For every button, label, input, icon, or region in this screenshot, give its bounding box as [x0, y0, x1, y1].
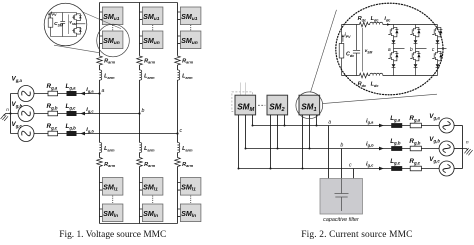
inductor L_g (row b) — [67, 111, 77, 116]
submodule SM_un upper arm phase b — [142, 31, 163, 49]
submodule SM_u1 upper arm phase b — [142, 7, 163, 25]
resistor R_arm lower, phase b — [137, 157, 143, 167]
wire: inset1 bottom rail — [51, 36, 77, 38]
wire: right neutral bus — [462, 126, 464, 169]
dotted continuation between SM_u1 and SM_un, phase a — [112, 25, 114, 30]
svg-text:a: a — [388, 47, 391, 53]
wire stubs into SM_l1 — [178, 183, 181, 191]
wire: upper arm vertical, phase b — [139, 3, 141, 56]
inductor L_g (row a) — [67, 91, 77, 96]
junction (SM_1 pin on bus c) — [302, 168, 304, 170]
current arrow i_g,c (Fig.2) — [379, 167, 384, 171]
wire: midpoint stub b (inset2) — [416, 48, 427, 50]
switch cell upper leg a (inset2) — [393, 25, 395, 28]
submodule SM_ln lower arm phase a — [102, 204, 123, 222]
inductor L_g,c (Fig.2) — [391, 166, 402, 171]
inductor L_g,a (Fig.2) — [391, 123, 402, 128]
taps to capacitive filter — [329, 126, 354, 179]
submodule SM_un upper arm phase a — [102, 31, 123, 49]
resistor R_g,b — [48, 111, 58, 116]
highlight circle around SM_1 — [296, 92, 323, 119]
svg-text:capacitive filter: capacitive filter — [323, 217, 359, 223]
submodule SM_u1 upper arm phase c — [180, 7, 201, 25]
wire: lower arm vertical, phase b — [139, 114, 141, 224]
submodule SM_l1 lower arm phase a — [102, 178, 123, 196]
AC source V_b (Fig.1) — [18, 106, 34, 122]
junction (SM_2 pin on bus a) — [284, 125, 286, 127]
svg-text:a: a — [328, 120, 331, 126]
phantom module (dashed) behind SM_M — [232, 92, 253, 112]
PV source box (inset1) — [50, 13, 52, 37]
svg-text:b: b — [340, 143, 343, 149]
current arrow i_PV (inset2) — [342, 36, 344, 42]
resistor R_dc bottom — [358, 73, 368, 78]
callout line lower (Fig.2 inset) — [323, 94, 437, 103]
wire stubs into SM_u1 — [178, 12, 181, 20]
inductor L_dc top — [370, 22, 383, 24]
svg-text:b: b — [142, 108, 145, 114]
wire stubs into SM_un — [140, 36, 143, 44]
wire to phase node b — [139, 80, 141, 114]
dotted continuation between SM_l1 and SM_ln, phase b — [152, 196, 154, 204]
junction (SM_1 pin on bus b) — [309, 148, 311, 150]
dotted continuation between SM_M and SM_2 — [258, 104, 265, 106]
junction (SM_M pin on bus a) — [252, 125, 254, 127]
wire — [99, 65, 101, 70]
wire to phase node a — [99, 80, 101, 94]
wire stubs into SM_u1 — [140, 12, 143, 20]
wire: phase line a — [34, 93, 100, 95]
wire to neutral bus (row b) — [454, 148, 462, 150]
wire stubs into SM_ln — [140, 209, 143, 217]
current arrow i_g (row b) — [80, 112, 85, 116]
current arrow i_g,b (Fig.2) — [379, 147, 384, 151]
wire: inset2 top rail — [342, 24, 438, 26]
node c — [176, 132, 178, 134]
wire: source neutral bus — [11, 94, 19, 134]
ground n (Fig.1) — [10, 113, 12, 115]
current arrow i_g (row c) — [80, 132, 85, 136]
capacitive filter box — [320, 179, 363, 215]
wire stubs into SM_un — [100, 36, 103, 44]
inductor L_arm upper, phase c — [178, 70, 180, 80]
diode (anti-parallel, upper, inset1) — [77, 14, 81, 21]
resistor R_g,a (Fig.2) — [410, 123, 421, 128]
wire to neutral bus (row a) — [454, 125, 462, 127]
inductor L_g,b (Fig.2) — [391, 146, 402, 151]
inset dashed circle (SM detail, Fig.2) — [336, 3, 443, 95]
wire: upper arm vertical, phase c — [177, 3, 179, 56]
wire: midpoint stub c (inset2) — [438, 48, 447, 50]
resistor R_g,c — [48, 131, 58, 136]
current arrow i_g,a (Fig.2) — [379, 124, 384, 128]
dotted continuation between SM_l1 and SM_ln, phase a — [112, 196, 114, 204]
wire: midpoint stub a (inset2) — [394, 48, 405, 50]
resistor R_g,c (Fig.2) — [410, 166, 421, 171]
inductor L_arm lower, phase a — [100, 142, 102, 152]
capacitor C_SM (inset1) — [60, 13, 65, 37]
wire: inset2 bottom rail — [342, 75, 438, 77]
callout line upper (Fig.2 inset) — [311, 10, 337, 92]
wire: lower arm vertical, phase a — [99, 94, 101, 224]
submodule SM_l1 lower arm phase c — [180, 178, 201, 196]
resistor R_arm upper, phase c — [175, 55, 181, 65]
resistor R_g,a — [48, 91, 58, 96]
wire: inset1 bridge leg — [76, 13, 78, 37]
svg-text:ig,b: ig,b — [86, 127, 94, 133]
wire: lower arm vertical, phase c — [177, 134, 179, 224]
wire stubs into SM_ln — [178, 209, 181, 217]
submodule SM_M (Fig.2) — [235, 95, 256, 115]
junction (SM_2 pin on bus b) — [277, 148, 279, 150]
wire — [99, 153, 101, 157]
ghost pins above SM_M — [241, 83, 246, 96]
svg-text:ig,b: ig,b — [366, 141, 374, 147]
dotted continuation between SM_l1 and SM_ln, phase c — [190, 196, 192, 204]
diode (anti-parallel, lower, inset1) — [77, 27, 81, 34]
switch cell lower leg c (inset2) — [437, 49, 439, 52]
IGBT switch lower (inset1) — [72, 27, 76, 34]
switch cell lower leg a (inset2) — [393, 49, 395, 52]
submodule SM_2 (Fig.2) — [267, 95, 288, 115]
node b — [138, 112, 140, 114]
submodule SM_ln lower arm phase c — [180, 204, 201, 222]
submodule SM_1 (Fig.2) — [299, 95, 320, 115]
svg-text:vSM: vSM — [365, 49, 373, 54]
capacitor C_dc (inset2) — [353, 25, 360, 76]
phase bus b — [246, 148, 441, 150]
wire — [177, 153, 179, 157]
inductor L_g (row c) — [67, 131, 77, 136]
voltage v_SM (inset1) — [67, 15, 69, 35]
wire — [139, 65, 141, 70]
ground n (Fig.2) — [463, 149, 468, 151]
svg-text:c: c — [349, 163, 352, 169]
switch cell upper leg b (inset2) — [415, 25, 417, 28]
resistor R_arm lower, phase c — [175, 157, 181, 167]
pins of SM_1 to phase buses — [303, 115, 317, 169]
inductor L_arm lower, phase b — [140, 142, 142, 152]
inset circle (SM detail, Fig.1) — [44, 3, 87, 46]
wire: inset1 top rail — [51, 12, 77, 14]
submodule SM_un upper arm phase c — [180, 31, 201, 49]
wire stubs into SM_l1 — [140, 183, 143, 191]
svg-text:ig,a: ig,a — [366, 118, 374, 124]
resistor R_arm lower, phase a — [97, 157, 103, 167]
wire — [139, 153, 141, 157]
svg-text:Fig. 1. Voltage source MMC: Fig. 1. Voltage source MMC — [59, 230, 166, 240]
wire: upper arm vertical, phase a — [99, 3, 101, 56]
AC source V_c (Fig.1) — [18, 126, 34, 142]
AC source V_g,b (Fig.2) — [439, 141, 454, 156]
pins of SM_M to phase buses — [239, 115, 253, 169]
svg-text:c: c — [180, 128, 183, 134]
svg-text:ig,a: ig,a — [86, 87, 94, 93]
switch cell lower leg b (inset2) — [415, 49, 417, 52]
wire: inset1 midpoint output — [77, 23, 86, 25]
svg-text:n: n — [466, 139, 469, 144]
callout line upper (Fig.1 inset) — [79, 10, 122, 28]
inductor L_arm upper, phase b — [140, 70, 142, 80]
dotted continuation between SM_u1 and SM_un, phase c — [190, 25, 192, 30]
submodule SM_l1 lower arm phase b — [142, 178, 163, 196]
svg-text:n: n — [6, 107, 9, 112]
svg-text:Fig. 2. Current source MMC: Fig. 2. Current source MMC — [301, 230, 412, 240]
AC source V_g,c (Fig.2) — [439, 161, 454, 176]
junction (SM_1 pin on bus a) — [316, 125, 318, 127]
wire to phase node c — [177, 80, 179, 134]
resistor R_dc top — [358, 22, 368, 27]
wire: phase line b — [34, 113, 140, 115]
phase bus a — [253, 125, 441, 127]
svg-text:a: a — [102, 88, 105, 94]
switch cell upper leg c (inset2) — [437, 25, 439, 28]
junction (SM_M pin on bus c) — [238, 168, 240, 170]
current arrow i_g (row a) — [80, 92, 85, 96]
dotted continuation between SM_u1 and SM_un, phase b — [152, 25, 154, 30]
bottom DC bus — [100, 223, 178, 225]
inductor L_dc bottom — [370, 73, 383, 75]
capacitor symbol inside filter — [335, 179, 349, 212]
wire stubs into SM_ln — [100, 209, 103, 217]
node a — [98, 92, 100, 94]
wire to neutral bus (row c) — [454, 168, 462, 170]
IGBT switch upper (inset1) — [72, 14, 76, 21]
PV source branch (inset2) — [341, 25, 343, 76]
wire — [177, 65, 179, 70]
current arrow i_PV (inset1) — [48, 14, 50, 18]
inductor L_arm lower, phase c — [178, 142, 180, 152]
AC source V_g,a (Fig.2) — [439, 118, 454, 133]
voltage v_SM (inset2) — [362, 28, 364, 72]
svg-text:ig,c: ig,c — [86, 107, 94, 113]
junction (SM_M pin on bus b) — [245, 148, 247, 150]
highlight circle around SM_un — [97, 24, 130, 57]
AC source V_a (Fig.1) — [18, 86, 34, 102]
submodule SM_u1 upper arm phase a — [102, 7, 123, 25]
wire stubs into SM_un — [178, 36, 181, 44]
svg-text:b: b — [410, 47, 413, 53]
resistor R_arm upper, phase a — [97, 55, 103, 65]
wire: phase line c — [34, 133, 178, 135]
svg-text:ig,c: ig,c — [366, 161, 374, 167]
submodule SM_ln lower arm phase b — [142, 204, 163, 222]
resistor R_arm upper, phase b — [137, 55, 143, 65]
inductor L_arm upper, phase a — [100, 70, 102, 80]
resistor R_g,b (Fig.2) — [410, 146, 421, 151]
pins of SM_2 to phase buses — [271, 115, 285, 169]
junction (SM_2 pin on bus c) — [270, 168, 272, 170]
wire stubs into SM_l1 — [100, 183, 103, 191]
phase bus c — [239, 168, 441, 170]
top DC bus — [100, 2, 178, 4]
callout line lower (Fig.1 inset) — [54, 45, 100, 53]
wire stubs into SM_u1 — [100, 12, 103, 20]
